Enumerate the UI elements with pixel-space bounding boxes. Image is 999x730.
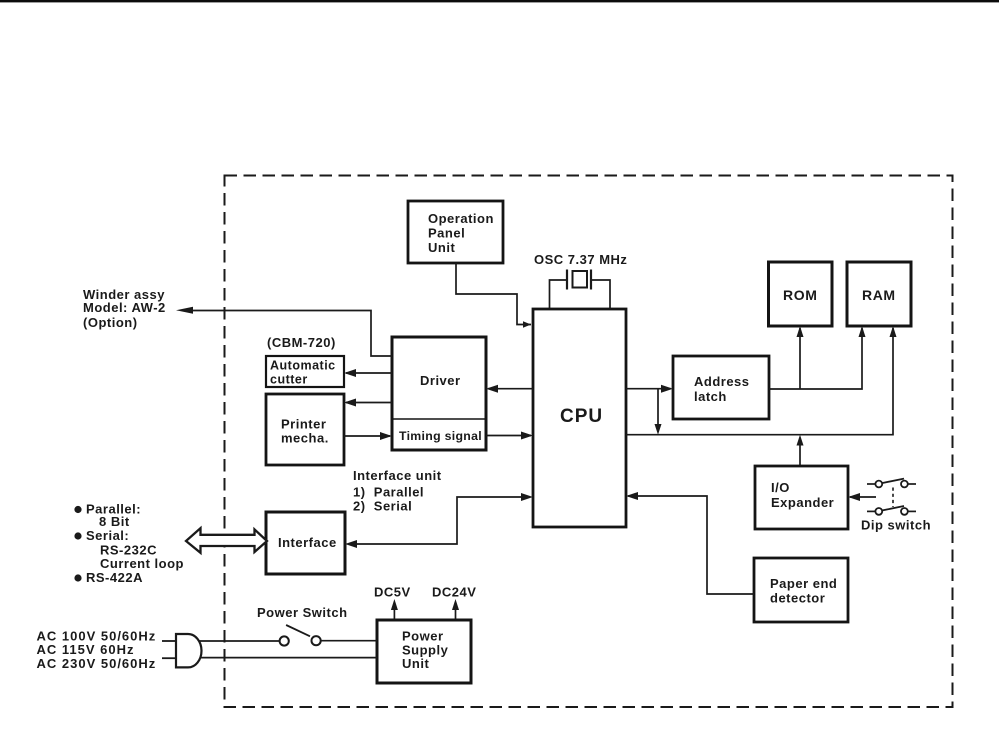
block: Paper end detector: [754, 558, 848, 622]
svg-text:(CBM-720): (CBM-720): [267, 335, 336, 350]
wire: crystal left leg to CPU: [550, 280, 568, 308]
svg-text:Interface unit: Interface unit: [353, 468, 442, 483]
svg-text:RAM: RAM: [862, 287, 896, 303]
svg-text:Panel: Panel: [428, 226, 465, 241]
svg-text:DC24V: DC24V: [432, 585, 476, 600]
crystal oscillator X1: [567, 270, 591, 290]
wire: CPU to Address latch: [626, 385, 673, 393]
svg-text:Dip switch: Dip switch: [861, 518, 931, 533]
svg-text:Current loop: Current loop: [100, 556, 184, 571]
wire: Interface to CPU: [345, 493, 533, 548]
bus: CPU to RAM: [626, 326, 897, 435]
label: Parallel/Serial bullet list: [74, 502, 184, 586]
svg-text:RS-422A: RS-422A: [86, 570, 143, 585]
wire: Operation Panel Unit to CPU: [456, 263, 531, 328]
wire: Dip switch to I/O Expander: [848, 493, 876, 501]
svg-text:Expander: Expander: [771, 495, 834, 510]
svg-text:DC5V: DC5V: [374, 585, 411, 600]
wire: Driver to Automatic cutter: [344, 369, 392, 377]
svg-text:ROM: ROM: [783, 287, 817, 303]
wire: AC line 1 (switched): [199, 640, 377, 642]
block: Power Supply Unit: [377, 620, 471, 683]
svg-text:2) Serial: 2) Serial: [353, 499, 412, 514]
power switch S2: [280, 625, 321, 646]
wire: Address latch to RAM: [769, 326, 866, 389]
svg-text:Address: Address: [694, 374, 750, 389]
wire: DC24V output: [452, 599, 459, 620]
block: Operation Panel Unit: [408, 201, 503, 263]
wire: Printer mecha. to Timing signal: [344, 432, 392, 440]
svg-text:I/O: I/O: [771, 480, 790, 495]
svg-text:Unit: Unit: [402, 656, 429, 671]
wire: Driver to Winder assy (option output): [176, 307, 392, 356]
svg-text:latch: latch: [694, 389, 727, 404]
svg-text:Unit: Unit: [428, 240, 455, 255]
label: Interface unit list: [353, 468, 442, 514]
svg-text:Power: Power: [402, 629, 444, 644]
svg-text:Timing signal: Timing signal: [399, 429, 482, 443]
svg-text:AC 115V 60Hz: AC 115V 60Hz: [37, 642, 135, 657]
block: RAM: [847, 262, 911, 326]
wire: Driver to Printer mecha.: [344, 399, 392, 407]
wire: Timing signal to CPU: [486, 432, 533, 440]
svg-text:Interface: Interface: [278, 535, 337, 550]
connector arrow: external parallel/serial I/O: [186, 528, 267, 553]
wire: CPU to Driver: [486, 385, 533, 393]
wire: AC line 2: [200, 657, 378, 659]
svg-text:Model: AW-2: Model: AW-2: [83, 300, 166, 315]
block: CPU: [533, 309, 626, 527]
block: Driver / Timing signal: [392, 337, 486, 450]
wire: branch to ROM: [797, 326, 804, 389]
wire: crystal right leg to CPU: [591, 280, 610, 308]
block: Address latch: [673, 356, 769, 419]
block: I/O Expander: [755, 466, 848, 529]
svg-text:Operation: Operation: [428, 211, 494, 226]
wire: address branch down to data bus: [655, 389, 662, 435]
svg-text:Driver: Driver: [420, 373, 461, 388]
svg-text:Paper end: Paper end: [770, 576, 837, 591]
block: ROM: [769, 262, 833, 326]
wire: I/O Expander to bus: [797, 435, 804, 466]
svg-text:CPU: CPU: [560, 406, 603, 427]
svg-text:Power Switch: Power Switch: [257, 605, 348, 620]
ac plug P1: [162, 634, 202, 667]
svg-text:8 Bit: 8 Bit: [99, 514, 130, 529]
svg-text:Printer: Printer: [281, 417, 326, 432]
wire: DC5V output: [391, 599, 398, 620]
printer unit boundary (dashed): [225, 176, 953, 708]
svg-text:detector: detector: [770, 591, 825, 606]
label: Winder assy Model: AW-2 (Option): [83, 287, 166, 330]
block: Automatic cutter: [266, 356, 344, 387]
svg-text:cutter: cutter: [270, 373, 308, 387]
svg-text:1) Parallel: 1) Parallel: [353, 485, 424, 500]
svg-text:AC 230V 50/60Hz: AC 230V 50/60Hz: [37, 656, 157, 671]
dip switch S1: [867, 479, 916, 515]
wire: Paper end detector to CPU: [626, 492, 754, 594]
svg-text:mecha.: mecha.: [281, 431, 329, 446]
block: Printer mecha.: [266, 394, 344, 465]
label: AC voltages: [37, 629, 157, 672]
svg-text:Automatic: Automatic: [270, 359, 336, 373]
svg-text:OSC 7.37 MHz: OSC 7.37 MHz: [534, 252, 627, 267]
svg-text:(Option): (Option): [83, 315, 138, 330]
svg-text:Serial:: Serial:: [86, 528, 129, 543]
block: Interface: [266, 512, 345, 574]
